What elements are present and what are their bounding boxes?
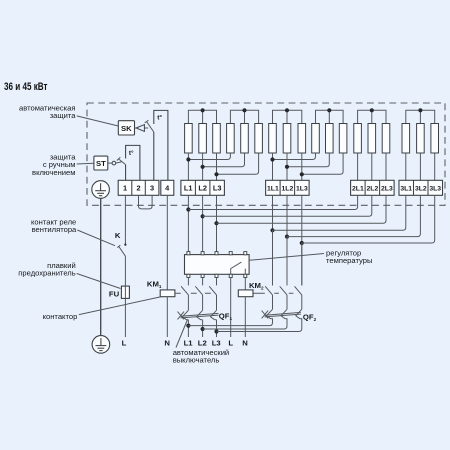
heater element EK11 — [326, 124, 334, 154]
wire element to terminal — [371, 153, 373, 180]
svg-text:t°: t° — [157, 114, 162, 122]
svg-text:1L3: 1L3 — [296, 186, 308, 193]
wire element to terminal — [357, 153, 359, 180]
wire element to terminal — [434, 153, 436, 180]
terminal block X4 (2L1-2L3) — [351, 180, 395, 195]
contact KM2.1 — [265, 286, 272, 295]
mechanical link contactor — [175, 292, 211, 294]
heater element EK2 — [199, 124, 207, 154]
heater element EK7 — [269, 124, 277, 154]
terminal block X5 (3L1-3L3) — [399, 180, 443, 195]
wire QF1 output L2 — [202, 320, 204, 337]
svg-text:L: L — [122, 339, 127, 348]
contactor coil KM2 — [238, 290, 253, 297]
wire element to terminal — [202, 153, 204, 180]
svg-text:1: 1 — [123, 184, 127, 193]
heater element EK3 — [213, 124, 221, 154]
svg-text:2: 2 — [136, 184, 140, 193]
thermostat SK body t° — [154, 110, 168, 180]
wire coil KM1 to N — [166, 297, 168, 337]
wire contact K to fuse — [124, 256, 126, 337]
contactor coil KM1 — [160, 290, 175, 297]
heater element EK6 — [255, 124, 263, 154]
svg-text:3: 3 — [150, 184, 154, 193]
temperature regulator A1 — [185, 255, 250, 275]
node star point bank 5 — [358, 110, 386, 123]
svg-text:L3: L3 — [212, 339, 221, 348]
svg-text:L1: L1 — [184, 184, 193, 193]
wire L1 terminal to regulator — [187, 195, 189, 251]
svg-text:включением: включением — [32, 168, 75, 177]
heater element EK5 — [241, 124, 249, 154]
wire QF2 output to L1 — [188, 318, 272, 325]
wire 1L3 terminal down — [301, 195, 303, 285]
wire element to terminal — [385, 153, 387, 180]
heater element EK10 — [312, 124, 320, 154]
node star point bank 1 — [188, 110, 216, 123]
symbol SK triangle — [135, 127, 137, 129]
node star point bank 4 — [316, 110, 344, 123]
wire 1L3 to contact KM2.3 — [301, 243, 303, 285]
svg-text:ST: ST — [96, 159, 106, 168]
wire 2L3 to L3 bus — [217, 195, 387, 223]
heater element EK9 — [298, 124, 306, 154]
svg-text:L2: L2 — [198, 339, 207, 348]
node supply L2 — [201, 327, 205, 331]
node junction — [285, 165, 289, 169]
wire terminal 1 to contact K — [124, 195, 126, 244]
contact KM1.2 — [202, 278, 204, 286]
wire element to terminal — [286, 153, 288, 180]
symbol ST manual actuator circle — [108, 162, 112, 164]
svg-text:L3: L3 — [213, 184, 222, 193]
contact KM1.1 — [187, 278, 189, 286]
wire PE conductor — [100, 198, 102, 335]
svg-text:N: N — [164, 339, 170, 348]
contact ST thermal blade — [118, 159, 125, 165]
wire L2 terminal to regulator — [202, 195, 204, 251]
wire 1L2 terminal down — [286, 195, 288, 285]
mechanical link contactor — [252, 292, 293, 294]
svg-text:контактор: контактор — [43, 312, 78, 321]
wire coil KM2 to N — [244, 297, 246, 337]
label leader manual protection — [77, 162, 94, 165]
svg-text:2L3: 2L3 — [381, 186, 393, 193]
wire element step connection — [287, 153, 329, 167]
label leader automatic protection — [77, 116, 119, 126]
svg-text:2L2: 2L2 — [367, 186, 379, 193]
svg-text:температуры: температуры — [326, 256, 372, 265]
node junction — [270, 157, 274, 161]
fuse FU — [121, 286, 129, 298]
svg-text:N: N — [242, 339, 248, 348]
wire element step connection — [188, 153, 230, 160]
wire QF1 output L3 — [216, 320, 218, 337]
label leader fan relay contact — [77, 230, 115, 246]
svg-text:1L2: 1L2 — [282, 186, 294, 193]
heater element EK12 — [339, 124, 347, 154]
svg-text:L1: L1 — [184, 339, 194, 348]
svg-text:выключатель: выключатель — [173, 356, 220, 365]
contact K fan relay — [119, 246, 126, 256]
svg-text:SK: SK — [121, 124, 132, 133]
label leader fuse — [77, 274, 121, 289]
ground symbol earth — [92, 336, 110, 354]
wire QF2 output to L2 — [203, 318, 287, 329]
heater element EK18 — [431, 124, 439, 154]
node supply L1 — [186, 324, 190, 328]
node junction — [186, 157, 190, 161]
node star point bank 6 — [406, 110, 435, 123]
node junction — [300, 172, 304, 176]
wire QF2 output to L3 — [217, 318, 302, 331]
svg-text:L: L — [228, 339, 233, 348]
wire element to terminal — [405, 153, 407, 180]
wire 3L2 to 1L2 bus — [287, 195, 420, 236]
wire terminal 4 to coil KM1 — [166, 195, 168, 290]
wire 2L2 to L2 bus — [203, 195, 372, 216]
wire element step connection — [217, 153, 259, 174]
svg-text:K: K — [115, 231, 121, 240]
heater element EK16 — [402, 124, 410, 154]
heater element EK1 — [185, 124, 193, 154]
node 1L1 bus junction — [270, 228, 274, 232]
wire L3 terminal to regulator — [216, 195, 218, 251]
terminal block X3 (1L1-1L3) — [266, 180, 310, 195]
label leader contactor — [79, 297, 161, 315]
terminal block X2 (L1-L3) — [181, 180, 225, 195]
wire element step connection — [302, 153, 343, 174]
ground symbol enclosure PE — [92, 181, 110, 199]
heater element EK4 — [227, 124, 235, 154]
node K fixed contact — [124, 244, 126, 246]
label leader circuit breaker — [176, 320, 188, 348]
wire loop terminal 2 to 3 — [139, 195, 153, 209]
svg-text:3L1: 3L1 — [400, 186, 412, 193]
svg-text:2L1: 2L1 — [352, 186, 364, 193]
svg-text:L2: L2 — [198, 184, 207, 193]
wire 2L1 to L1 bus — [188, 195, 357, 209]
wire 3L1 to 1L1 bus — [273, 195, 406, 230]
terminal block X1 (1-4) — [118, 180, 159, 195]
wire 1L1 terminal down — [272, 195, 274, 285]
contact KM1.3 — [216, 278, 218, 286]
svg-text:36 и 45 кВт: 36 и 45 кВт — [4, 81, 48, 93]
node L3 bus junction — [214, 221, 218, 225]
heater element EK17 — [417, 124, 425, 154]
wire element to terminal — [216, 153, 218, 180]
heater element EK14 — [368, 124, 376, 154]
svg-text:t°: t° — [129, 149, 134, 157]
contact SK thermal blade — [147, 122, 154, 132]
svg-text:FU: FU — [109, 289, 120, 298]
svg-text:защита: защита — [50, 111, 77, 120]
heater element EK15 — [382, 124, 390, 154]
svg-text:вентилятора: вентилятора — [32, 225, 77, 234]
svg-text:3L2: 3L2 — [415, 186, 427, 193]
breaker QF1 — [182, 310, 188, 320]
contact KM2.3 — [295, 286, 302, 295]
enclosure dashed border — [87, 103, 445, 205]
node supply L3 — [214, 329, 218, 333]
wire QF1 output L1 — [187, 320, 189, 337]
wire element to terminal — [272, 153, 274, 180]
wire regulator N to coil KM2 — [244, 278, 246, 290]
svg-text:3L3: 3L3 — [429, 186, 441, 193]
heater element EK8 — [283, 124, 291, 154]
wire element step connection — [273, 153, 316, 160]
node star point bank 2 — [230, 110, 258, 123]
wire element to terminal — [187, 153, 189, 180]
wire regulator L output — [230, 278, 232, 338]
label leader regulator — [249, 254, 324, 261]
op device SK box — [118, 121, 134, 135]
wire 3L3 to 1L3 bus — [302, 195, 435, 243]
node junction — [214, 172, 218, 176]
node L2 bus junction — [201, 214, 205, 218]
contact KM2.2 — [280, 286, 287, 295]
node star point bank 3 — [273, 110, 302, 123]
wire element to terminal — [419, 153, 421, 180]
wire 1L2 to contact KM2.2 — [286, 237, 288, 286]
node junction — [201, 165, 205, 169]
node 1L3 bus junction — [300, 241, 304, 245]
thermostat ST body t° — [126, 145, 140, 180]
node 1L2 bus junction — [285, 235, 289, 239]
op device ST box — [94, 156, 108, 170]
wire 1L1 to contact KM2.1 — [272, 230, 274, 285]
node L1 bus junction — [186, 207, 190, 211]
wire element step connection — [203, 153, 245, 167]
svg-text:предохранитель: предохранитель — [18, 269, 75, 278]
svg-text:1L1: 1L1 — [267, 186, 279, 193]
wire element to terminal — [301, 153, 303, 180]
breaker QF2 — [267, 309, 273, 319]
heater element EK13 — [354, 124, 362, 154]
